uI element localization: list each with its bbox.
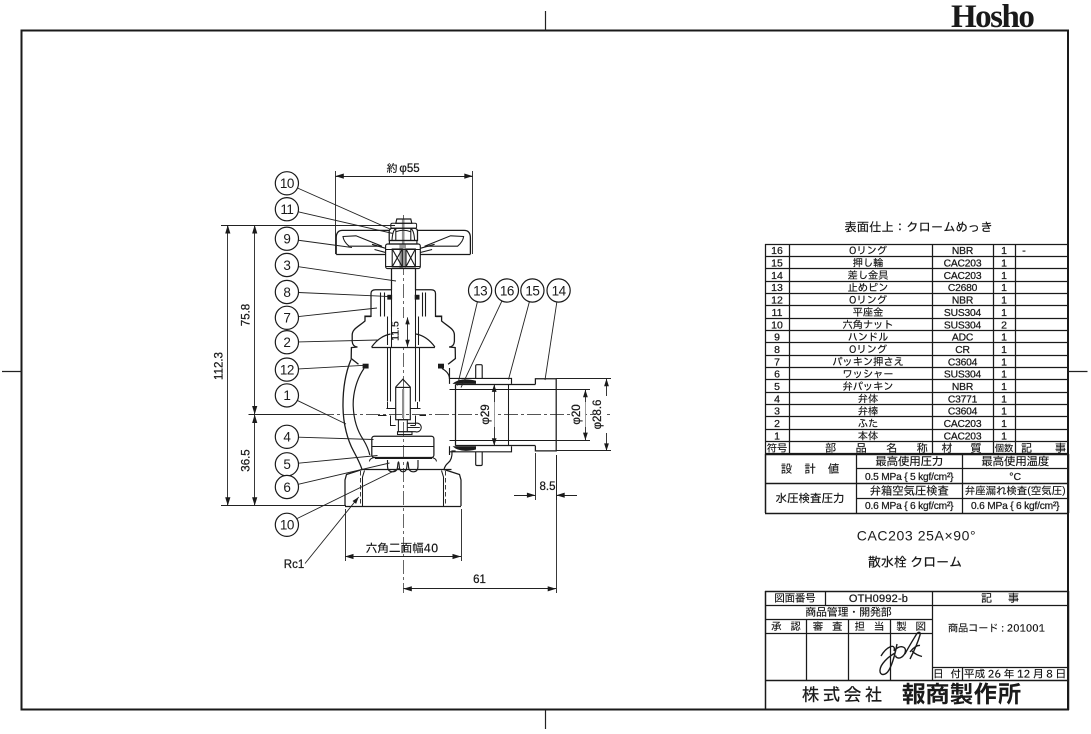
extension line handle top [221,225,395,227]
body neck above outlet [449,368,451,378]
balloon 5 leader [298,456,377,464]
parts row 4 弁体 [774,393,1007,405]
balloon 7 [275,306,298,329]
coupling end ring [535,379,556,451]
packing gland 7 [371,290,436,317]
balloon 11 [275,198,298,221]
centering mark left [2,371,22,373]
svg-text:φ55: φ55 [399,163,419,175]
parts row 13 止めピン [771,282,1007,294]
svg-text:C3771: C3771 [948,394,978,405]
svg-text:5: 5 [774,381,780,393]
parts row 5 弁パッキン [774,381,1007,393]
company name [802,682,1020,704]
O-ring 12 right [438,364,444,369]
svg-text:1: 1 [1001,418,1007,430]
washer under nut [389,241,417,245]
disc packing 5 with side hooks [369,458,436,462]
hex nut 10 on stem [389,228,417,240]
parts row 12 Oリング [771,295,1007,307]
cross hatch right square [406,249,415,267]
disc holder 4 block [372,436,434,457]
dim phi29 [480,384,497,445]
balloon 5 [275,453,298,476]
svg-text:8: 8 [283,285,290,300]
coupling nut 差し金具 14 body [456,384,536,445]
O-ring 12 left [363,364,369,369]
svg-text:10: 10 [280,518,294,533]
svg-text:15: 15 [525,283,539,298]
valve stem lower rod [396,379,411,419]
handwheel 9 left wing [336,230,389,254]
valve body right outline upper [442,369,450,380]
svg-text:7: 7 [774,356,780,368]
balloon 15 leader [509,302,530,380]
svg-text:Rc1: Rc1 [284,559,304,571]
parts row 11 平座金 [772,307,1008,319]
svg-text:CAC203: CAC203 [944,419,982,430]
title block grid [765,591,1069,710]
svg-text:7: 7 [283,311,290,326]
balloon 1 [275,384,298,407]
svg-text:ADC: ADC [952,333,974,344]
svg-text:11.5: 11.5 [390,321,402,341]
svg-text:C3604: C3604 [948,407,978,418]
parts row 1 本体 [774,430,1007,442]
bonnet inner dome arcs [372,334,435,348]
balloon 6 leader [298,463,389,484]
svg-text:2: 2 [1001,319,1007,331]
balloon 7 leader [298,308,377,317]
stem guide left [388,347,391,402]
svg-text:13: 13 [473,283,487,298]
title block labels [772,593,1065,679]
parts row 16 Oリング [771,245,1026,257]
outlet bore lines [450,390,557,441]
parts row 7 パッキン押さえ [774,356,1007,368]
balloon 15 [521,279,544,302]
svg-text:4: 4 [283,430,291,445]
svg-text:10: 10 [771,319,783,331]
svg-text:1: 1 [1001,307,1007,319]
svg-text:1: 1 [1001,295,1007,307]
svg-text:12: 12 [280,362,294,377]
O-ring 8 left [387,295,392,300]
svg-text:1: 1 [1001,332,1007,344]
stem gray shaft through nut [402,219,405,244]
parts row 6 ワッシャー [774,369,1007,381]
balloon 4 leader [298,437,373,439]
svg-text:1: 1 [1001,393,1007,405]
extension line bottom [221,505,346,507]
dim approx dia 55 [335,171,473,254]
push ring lug bottom [476,452,483,466]
balloon 10 bottom [275,513,298,536]
balloon 16 leader [461,301,502,388]
svg-text:112.3: 112.3 [214,352,226,380]
svg-text:CAC203 25A×90°: CAC203 25A×90° [857,528,976,544]
svg-text:10: 10 [280,176,294,191]
vertical center line [403,215,405,593]
balloon 3 leader [298,267,396,281]
centering mark top [545,11,547,31]
balloon 16 [495,279,518,302]
parts row 3 弁棒 [774,406,1007,418]
svg-text:36.5: 36.5 [241,449,253,471]
washer 11 flat washer [391,223,417,228]
svg-text:NBR: NBR [952,246,973,257]
design value labels [776,456,1065,513]
balloon 9 [275,227,298,250]
stem through bonnet [388,317,419,348]
svg-text:12: 12 [771,295,783,307]
svg-text:1: 1 [1001,406,1007,418]
balloon 9 leader [298,240,352,247]
parts row 2 ふた [774,418,1007,430]
stop pin 13 wedge top [453,379,477,384]
balloon 10 bottom leader [297,468,400,519]
handwheel 9 right wing [418,230,471,254]
svg-text:16: 16 [771,245,783,257]
svg-text:NBR: NBR [952,382,973,393]
svg-text:61: 61 [473,574,486,586]
dim phi28.6 extension lines [556,379,611,451]
disc stem slab [398,432,413,435]
svg-text:5: 5 [283,457,290,472]
balloon 1 leader [297,400,346,424]
wheel hub with cross hatch [386,244,421,269]
design values table grid [765,454,1069,514]
seat bridge [378,402,426,426]
svg-text:9: 9 [283,232,290,247]
svg-text:CAC203: CAC203 [944,259,982,270]
balloon 10 leader [298,188,392,229]
dim phi28.6 [592,379,609,451]
svg-text:3: 3 [774,406,780,418]
svg-text:8.5: 8.5 [540,481,556,493]
svg-text:OTH0992-b: OTH0992-b [849,593,908,605]
dim 36.5 [241,415,258,506]
stem square shown through hub [399,244,406,269]
svg-text:1: 1 [1001,430,1007,442]
svg-text:0.5 MPa { 5 kgf/cm²}: 0.5 MPa { 5 kgf/cm²} [865,472,954,483]
balloon 8 leader [298,293,388,297]
svg-text:CAC203: CAC203 [944,271,982,282]
svg-text:11: 11 [280,202,293,217]
parts row 15 押し輪 [771,258,1007,270]
parts row 10 六角ナット [771,319,1007,331]
svg-text:15: 15 [771,258,783,270]
svg-text:C2680: C2680 [948,283,978,294]
svg-text:14: 14 [552,283,567,298]
svg-text:C3604: C3604 [948,357,978,368]
body neck below outlet [449,452,451,455]
valve body 1 left outline [343,360,362,470]
stop pin wedge bottom [453,446,477,451]
O-ring 8 right [415,295,420,300]
svg-text:°C: °C [1009,471,1021,483]
svg-text:SUS304: SUS304 [944,308,982,319]
svg-text:1: 1 [283,388,290,403]
stem guide right [416,347,420,402]
balloon 13 leader [458,302,478,386]
Rc1 label and leader [284,496,361,571]
balloon 12 leader [298,365,364,369]
balloon 8 [275,280,298,303]
svg-text:0.6 MPa { 6 kgf/cm²}: 0.6 MPa { 6 kgf/cm²} [865,501,954,512]
svg-text:75.8: 75.8 [241,304,253,326]
svg-text:SUS304: SUS304 [944,370,982,381]
dim phi20 extension lines [556,390,590,441]
balloon 4 [275,425,298,448]
balloon 11 leader [298,212,393,234]
svg-text:2: 2 [283,335,290,350]
svg-text:6: 6 [774,369,780,381]
svg-text:1: 1 [774,430,780,442]
centering mark bottom [545,710,547,729]
product name block [857,528,976,568]
dim 11.5 stem travel [390,317,410,346]
svg-text:11: 11 [772,307,783,319]
horizontal center line [320,414,612,416]
extension line mid centerline left [249,414,321,416]
bonnet 2 bell outline [351,316,455,364]
push ring lug top [476,365,483,379]
svg-text:1: 1 [1001,270,1007,282]
balloon 6 [275,475,298,498]
valve body right outline lower [444,451,456,470]
dim 75.8 [241,225,258,415]
signature yok [880,632,922,674]
body spigot end inside coupler [508,385,510,446]
svg-text:SUS304: SUS304 [944,320,982,331]
svg-text:1: 1 [1001,282,1007,294]
parts row 9 ハンドル [774,332,1007,344]
svg-text:Hosho: Hosho [951,0,1034,35]
stem top cap [396,219,412,223]
valve body 1 left inner wall [353,369,370,456]
parts row 14 差し金具 [771,270,1007,282]
svg-text:1: 1 [1001,344,1007,356]
svg-text:2: 2 [774,418,780,430]
dim hex width 40 [345,509,462,561]
stop pin 13 through stem [398,420,421,432]
centering mark right [1068,371,1088,373]
svg-text:CAC203: CAC203 [944,431,982,442]
svg-text:4: 4 [774,393,780,405]
svg-text:0.6 MPa { 6 kgf/cm²}: 0.6 MPa { 6 kgf/cm²} [971,501,1060,512]
svg-text:14: 14 [771,270,783,282]
parts header row [767,443,1065,453]
balloon 14 leader [545,302,557,380]
balloon 14 [547,279,570,302]
dim phi20 [571,390,588,440]
washer 6 and hex nut below disc [388,460,419,472]
svg-text:6: 6 [283,480,290,495]
svg-text:3: 3 [283,258,290,273]
inlet thread Rc1 hidden lines [361,471,446,506]
push ring 15 top bar [450,378,512,384]
balloon 10 [275,172,298,195]
svg-text:1: 1 [1001,356,1007,368]
balloon 13 [469,279,492,302]
balloon 2 leader [299,340,379,342]
svg-text:1: 1 [1001,245,1007,257]
svg-text:-: - [1022,245,1026,257]
push ring 15 bottom bar [450,446,512,452]
svg-text:φ28.6: φ28.6 [592,400,604,430]
parts row 8 Oリング [774,344,1007,356]
valve stem 3 [392,269,416,290]
balloon 2 [275,331,298,354]
balloon 12 [275,358,298,381]
balloon 3 [275,253,298,276]
inlet hex 六角二面幅40 [345,470,461,507]
svg-text:CR: CR [955,345,969,356]
svg-text:φ20: φ20 [571,404,583,424]
dim 61 [403,455,556,593]
svg-text:1: 1 [1001,258,1007,270]
svg-text:1: 1 [1001,381,1007,393]
svg-text:1: 1 [1001,369,1007,381]
dim 8.5 [514,453,577,500]
svg-text:8: 8 [774,344,780,356]
svg-text:16: 16 [500,283,514,298]
svg-text:φ29: φ29 [480,404,492,424]
parts list table grid [765,244,1068,454]
svg-text:13: 13 [771,282,783,294]
svg-text:NBR: NBR [952,296,973,307]
surface finish note [845,221,991,232]
svg-text:9: 9 [774,332,780,344]
cross hatch left square [392,249,402,267]
dim 112.3 [214,225,231,506]
